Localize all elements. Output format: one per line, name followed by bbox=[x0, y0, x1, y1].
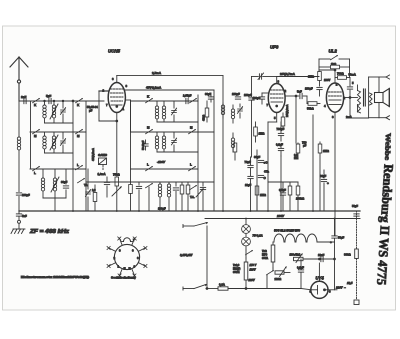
svg-text:Sockelschaltung: Sockelschaltung bbox=[111, 276, 136, 280]
wire grid left bbox=[99, 91, 118, 122]
wire band column left bbox=[30, 101, 32, 169]
capacitor 10nF stack bbox=[245, 157, 254, 211]
svg-text:~: ~ bbox=[344, 286, 346, 290]
heater chain arcs bbox=[274, 234, 317, 242]
coil L6 variable bbox=[51, 169, 59, 198]
tube UCH5 bbox=[103, 49, 128, 113]
svg-text:Heizstromnetz 220/2x110Volt(U): Heizstromnetz 220/2x110Volt(U) bbox=[21, 275, 89, 279]
svg-text:2,0: 2,0 bbox=[92, 189, 96, 192]
capacitor 2,05uF bbox=[183, 94, 192, 104]
resistor 1M ul2 bbox=[308, 70, 335, 86]
coil L2 variable bbox=[50, 101, 58, 123]
wire row2 mid bbox=[131, 131, 215, 133]
coil L5 bbox=[41, 169, 44, 198]
wire UL2 anode right bbox=[344, 97, 351, 99]
svg-text:L: L bbox=[190, 163, 192, 167]
resistor 0,2M bbox=[129, 182, 133, 211]
wire vertical x281 bbox=[280, 122, 282, 211]
svg-text:ZF = 468 kHz: ZF = 468 kHz bbox=[29, 229, 70, 235]
capacitor 100pF b bbox=[244, 93, 254, 157]
svg-text:50µF: 50µF bbox=[338, 236, 345, 240]
svg-text:-130V: -130V bbox=[157, 160, 166, 164]
ground bus bbox=[19, 207, 360, 212]
switch TA bbox=[78, 178, 88, 187]
label 50,25-94 bbox=[87, 105, 98, 113]
resistor 1M if bbox=[233, 143, 237, 160]
switch K row1 right bbox=[76, 98, 83, 107]
svg-text:100pF: 100pF bbox=[232, 92, 240, 96]
resistor 1M det bbox=[255, 185, 267, 211]
svg-text:50kΩ: 50kΩ bbox=[307, 107, 314, 111]
svg-text:120V: 120V bbox=[250, 268, 256, 272]
mains wire bottom bbox=[183, 284, 218, 290]
svg-text:pF: pF bbox=[303, 144, 307, 148]
coil L4 variable bbox=[50, 132, 58, 153]
resistor 200k b bbox=[296, 182, 305, 211]
antenna bbox=[10, 57, 28, 101]
svg-text:L: L bbox=[147, 163, 149, 167]
svg-text:40kΩ: 40kΩ bbox=[203, 115, 206, 121]
capacitor CTa bbox=[258, 170, 269, 181]
capacitor 100pF left bbox=[16, 193, 30, 197]
svg-text:26V,0,7mA: 26V,0,7mA bbox=[280, 72, 296, 76]
resistor 2k tone bbox=[319, 62, 350, 69]
wire row3 mid bbox=[131, 168, 199, 170]
resistor 20k bbox=[92, 185, 97, 211]
trimmer 50-80pF bbox=[142, 140, 148, 150]
svg-text:2,5mA: 2,5mA bbox=[152, 71, 162, 75]
capacitor 70pF bbox=[200, 182, 205, 211]
junction dots bus bbox=[72, 210, 335, 219]
svg-text:1MΩ: 1MΩ bbox=[323, 149, 330, 153]
svg-text:130+5kΩ: 130+5kΩ bbox=[290, 253, 301, 257]
resistor 1MΩ avc bbox=[254, 122, 266, 142]
vertical x198 bbox=[197, 95, 199, 211]
tone switch loop bbox=[319, 55, 350, 77]
speaker terminals bbox=[379, 75, 390, 120]
svg-text:1MΩ: 1MΩ bbox=[259, 132, 266, 136]
switch L mid row3 right bbox=[189, 163, 196, 171]
IF transformer T1 coil a bbox=[221, 103, 224, 118]
svg-text:50mA: 50mA bbox=[349, 73, 356, 77]
svg-text:203V: 203V bbox=[276, 214, 285, 218]
svg-text:100pF: 100pF bbox=[253, 96, 261, 100]
resistor 200k a bbox=[288, 182, 292, 211]
svg-text:780Ω: 780Ω bbox=[337, 72, 344, 76]
svg-text:UCH5: UCH5 bbox=[108, 49, 121, 54]
speaker frame wires bbox=[350, 77, 379, 118]
vertical x130 bbox=[130, 101, 132, 182]
svg-text:UY4 UL2 UCH5 UF6: UY4 UL2 UCH5 UF6 bbox=[274, 229, 300, 233]
switch K mid row1 bbox=[146, 95, 153, 103]
wire UF6 screen right bbox=[285, 95, 297, 97]
svg-text:750Ω: 750Ω bbox=[113, 173, 120, 177]
svg-text:5nF: 5nF bbox=[297, 90, 302, 94]
wire row1 bottom bbox=[45, 122, 74, 124]
switch L mid row3 bbox=[146, 163, 153, 171]
svg-text:180µF: 180µF bbox=[158, 207, 166, 211]
svg-text:Webbe: Webbe bbox=[383, 133, 392, 160]
resistor 780 bbox=[335, 72, 356, 80]
wire triode exit bbox=[125, 100, 131, 132]
wire vertical x214 bbox=[213, 90, 215, 211]
capacitor 100pF a bbox=[232, 92, 241, 99]
switch Dr bbox=[146, 183, 153, 211]
IF coil pair row2 bbox=[155, 132, 165, 152]
dial lamp feed wire bbox=[183, 222, 208, 289]
output transformer primary bbox=[358, 85, 361, 113]
svg-text:1MΩ: 1MΩ bbox=[308, 75, 315, 79]
switch K band1 bbox=[33, 98, 40, 107]
wire UL2 top pin bbox=[324, 69, 336, 83]
wire vertical x73 bbox=[72, 101, 74, 211]
switch L row3 right bbox=[76, 163, 83, 170]
switch row1 mid right bbox=[190, 98, 197, 103]
200V rail bbox=[205, 214, 360, 219]
svg-text:220Ω: 220Ω bbox=[275, 277, 282, 281]
svg-text:220V: 220V bbox=[248, 278, 255, 282]
svg-text:10nF: 10nF bbox=[318, 253, 325, 257]
resistor UF6 cathode bbox=[281, 113, 285, 130]
capacitor 80uF bbox=[320, 170, 329, 211]
ground bbox=[11, 229, 25, 234]
wire UY4 right bbox=[328, 259, 353, 290]
switch L row3 bbox=[33, 166, 40, 175]
svg-text:1nF: 1nF bbox=[21, 95, 27, 99]
tube socket diagram bbox=[107, 237, 147, 277]
capacitor top coupling 2nF bbox=[252, 73, 277, 97]
connector bottom right bbox=[354, 300, 359, 305]
svg-text:L: L bbox=[77, 163, 79, 167]
svg-text:2,05µF: 2,05µF bbox=[183, 94, 192, 98]
svg-text:UY4: UY4 bbox=[316, 276, 325, 281]
svg-text:26V,0,2mA: 26V,0,2mA bbox=[286, 104, 289, 117]
voltage selector resistor bbox=[244, 258, 248, 289]
capacitor 0,5uF bbox=[279, 182, 286, 211]
svg-text:0,1µF: 0,1µF bbox=[276, 143, 283, 147]
trimmer mid row1 bbox=[171, 101, 177, 122]
svg-text:70pF: 70pF bbox=[245, 160, 252, 164]
IF coil pair row1 bbox=[155, 101, 165, 122]
svg-text:170 V: 170 V bbox=[250, 263, 257, 267]
capacitor 90pF bbox=[61, 169, 69, 198]
svg-text:+: + bbox=[330, 240, 332, 244]
wire UY4 left bbox=[301, 289, 311, 290]
coil L3 bbox=[43, 132, 46, 153]
wire 10nF rail bbox=[303, 258, 335, 260]
wire UCH5 screen right bbox=[125, 86, 214, 91]
trimmer C t1 bbox=[60, 101, 66, 123]
capacitor 5nF ant ground bbox=[16, 211, 27, 229]
svg-text:pF: pF bbox=[89, 109, 93, 113]
wire antenna input bbox=[19, 100, 104, 102]
svg-text:5µF: 5µF bbox=[46, 94, 51, 98]
wire row3 left bbox=[30, 168, 86, 170]
pot 130+5k bbox=[290, 253, 304, 263]
resistor 50k screen bbox=[307, 96, 320, 111]
cathode resistor 750 bbox=[98, 121, 121, 211]
wire UCH5 anode top bbox=[117, 71, 223, 83]
svg-text:190V: 190V bbox=[324, 78, 330, 82]
svg-text:100µF: 100µF bbox=[305, 87, 313, 91]
switch M row2 right bbox=[76, 129, 83, 138]
svg-text:+: + bbox=[327, 181, 329, 185]
svg-text:220V: 220V bbox=[335, 286, 344, 290]
wire heater to cap bbox=[317, 219, 335, 243]
wire row2 left bbox=[30, 131, 86, 133]
rectifier UY4 bbox=[310, 263, 332, 298]
svg-text:H: H bbox=[129, 267, 131, 271]
resistor 1M ul2grid bbox=[318, 142, 330, 211]
svg-text:46V-2,2mA: 46V-2,2mA bbox=[146, 86, 162, 90]
wire row2 mid bottom bbox=[157, 151, 198, 153]
capacitor speaker field bbox=[352, 204, 359, 216]
trimmer padder bbox=[85, 169, 91, 211]
switch lamp bbox=[246, 250, 253, 258]
wire row1 mid bbox=[131, 100, 199, 102]
transformer core bbox=[364, 89, 366, 106]
svg-text:GANG: GANG bbox=[98, 153, 108, 157]
svg-text:30µF: 30µF bbox=[254, 155, 261, 159]
wire row3 bottom bbox=[43, 197, 66, 199]
svg-text:50-80pF: 50-80pF bbox=[142, 140, 145, 150]
svg-text:7V-0,1A: 7V-0,1A bbox=[253, 234, 263, 238]
svg-text:CTa: CTa bbox=[264, 170, 269, 174]
svg-text:90pF: 90pF bbox=[61, 180, 68, 184]
svg-text:TA: TA bbox=[84, 183, 87, 187]
capacitor 0,1uF ps bbox=[297, 259, 304, 289]
svg-text:40V,0,5mA: 40V,0,5mA bbox=[91, 148, 95, 161]
capacitor 1nF bbox=[21, 95, 27, 104]
resistor 800ohm bbox=[344, 211, 358, 300]
wire row1 mid bottom bbox=[157, 121, 198, 123]
dial lamps bbox=[242, 219, 263, 251]
svg-text:16,5: 16,5 bbox=[347, 281, 353, 285]
switch TA2 bbox=[190, 185, 197, 199]
wire UF6 grid left bbox=[253, 93, 269, 104]
svg-text:H: H bbox=[124, 267, 126, 271]
resistor det2 bbox=[186, 182, 190, 211]
capacitor 100uF ul2 bbox=[305, 87, 322, 97]
svg-text:UF6: UF6 bbox=[270, 45, 279, 50]
wire row2 bottom bbox=[45, 152, 74, 154]
switch M mid row2 bbox=[146, 126, 153, 134]
node row1 bbox=[72, 100, 74, 102]
svg-text:0,5µF: 0,5µF bbox=[279, 188, 286, 192]
volume pot arrow bbox=[196, 188, 204, 197]
capacitor 10nF ps bbox=[318, 253, 325, 262]
svg-text:1MΩ: 1MΩ bbox=[260, 193, 267, 197]
capacitor det bbox=[173, 182, 178, 211]
capacitor 5nF out bbox=[347, 78, 354, 119]
svg-text:100pF: 100pF bbox=[22, 193, 30, 197]
coil T1 low bbox=[231, 133, 234, 152]
coil antenna lead bbox=[17, 101, 20, 211]
svg-text:2kΩ: 2kΩ bbox=[331, 62, 337, 66]
wire row4 pickup bbox=[86, 181, 214, 183]
svg-text:90µF: 90µF bbox=[205, 92, 212, 96]
svg-text:3,2V6,1W: 3,2V6,1W bbox=[180, 253, 193, 257]
heater dropper resistor bbox=[262, 242, 275, 268]
svg-text:800Ω: 800Ω bbox=[344, 253, 351, 257]
wire UF6 anode bbox=[277, 72, 319, 84]
resistor 0,2M det bbox=[294, 141, 307, 161]
output transformer secondary bbox=[370, 93, 373, 105]
trimmer C t2 bbox=[60, 132, 66, 153]
svg-text:50µF: 50µF bbox=[352, 204, 358, 208]
capacitor 90pF if bbox=[205, 92, 214, 102]
wire UL2 cathode down bbox=[334, 112, 336, 236]
capacitor 5nF screen bbox=[296, 90, 307, 99]
capacitor 700pF bbox=[277, 127, 285, 141]
switch heater bottom bbox=[267, 268, 274, 289]
capacitor C2 bbox=[136, 182, 141, 211]
wire vertical x296 bbox=[295, 96, 297, 143]
switch M mid row2 right bbox=[189, 126, 196, 134]
svg-text:0,8A: 0,8A bbox=[219, 283, 225, 287]
capacitor 0,1uF bbox=[276, 143, 284, 157]
selector labels bbox=[233, 263, 257, 282]
tube UF6 bbox=[267, 45, 287, 121]
IF transformer T1 coil b bbox=[231, 105, 234, 123]
capacitor 50uF bbox=[330, 236, 345, 260]
potentiometer arrow bbox=[112, 186, 122, 196]
wire row4 right bbox=[268, 181, 298, 183]
svg-text:L: L bbox=[34, 171, 36, 175]
svg-text:200kΩ: 200kΩ bbox=[296, 197, 305, 201]
wire vertical x257 bbox=[256, 150, 258, 211]
svg-text:T.A.: T.A. bbox=[190, 195, 195, 199]
capacitor cathode bypass bbox=[104, 177, 109, 197]
trimmer mid row2 bbox=[171, 132, 177, 152]
resistor det1 bbox=[180, 182, 184, 211]
svg-text:80µF: 80µF bbox=[320, 174, 327, 178]
pot 220 ohm bbox=[275, 266, 291, 281]
svg-text:100pF: 100pF bbox=[244, 93, 252, 97]
svg-text:UL2: UL2 bbox=[329, 49, 338, 54]
coil Dr pair bbox=[158, 182, 170, 211]
resistor 40k bbox=[203, 101, 209, 122]
svg-text:95VA: 95VA bbox=[262, 257, 268, 260]
wire vertical x223 bbox=[222, 76, 224, 211]
svg-text:1,6mA: 1,6mA bbox=[98, 172, 106, 176]
capacitor 5uF bbox=[46, 94, 51, 104]
wire vertical x313 bbox=[312, 115, 314, 211]
tube UL2 bbox=[324, 49, 346, 120]
svg-text:95VΩ: 95VΩ bbox=[233, 271, 239, 274]
capacitor 30uF +C bbox=[254, 155, 268, 165]
svg-text:50,25-94: 50,25-94 bbox=[87, 105, 98, 109]
wire transformer top bbox=[350, 97, 358, 99]
svg-text:MΩ: MΩ bbox=[294, 156, 298, 160]
wire UF6 cathode down bbox=[268, 113, 277, 212]
gang capacitor bbox=[98, 153, 108, 170]
fuse 0,8A bbox=[218, 283, 301, 291]
switch M row2 bbox=[33, 129, 40, 138]
trimmer T1 bbox=[237, 104, 243, 118]
wire vertical x86 bbox=[85, 101, 87, 211]
coil L1 bbox=[43, 101, 46, 123]
svg-text:5nF: 5nF bbox=[22, 214, 27, 218]
speaker magnet and cone bbox=[375, 89, 390, 107]
